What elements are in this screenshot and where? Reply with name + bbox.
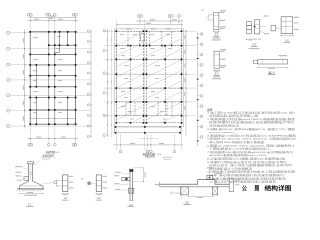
svg-text:1:100: 1:100 [157,154,161,156]
svg-text:HPB300, HRB335.: HPB300, HRB335. [209,132,236,134]
svg-text:厕: 厕 [255,185,260,193]
svg-text:结构详图: 结构详图 [265,185,292,193]
svg-text:说明:: 说明: [207,108,213,112]
svg-text:1:100: 1:100 [56,152,59,154]
svg-text:2-2: 2-2 [185,202,189,205]
svg-text:1-1: 1-1 [214,34,218,37]
svg-text:屋面结构平面图: 屋面结构平面图 [143,152,156,156]
svg-text:3-3: 3-3 [285,40,289,43]
svg-text:公: 公 [242,186,247,193]
svg-text:基础平面图: 基础平面图 [46,150,56,154]
svg-text:梁-1: 梁-1 [268,70,275,74]
svg-text:2-2: 2-2 [215,72,219,75]
svg-text:2-2: 2-2 [252,44,256,47]
